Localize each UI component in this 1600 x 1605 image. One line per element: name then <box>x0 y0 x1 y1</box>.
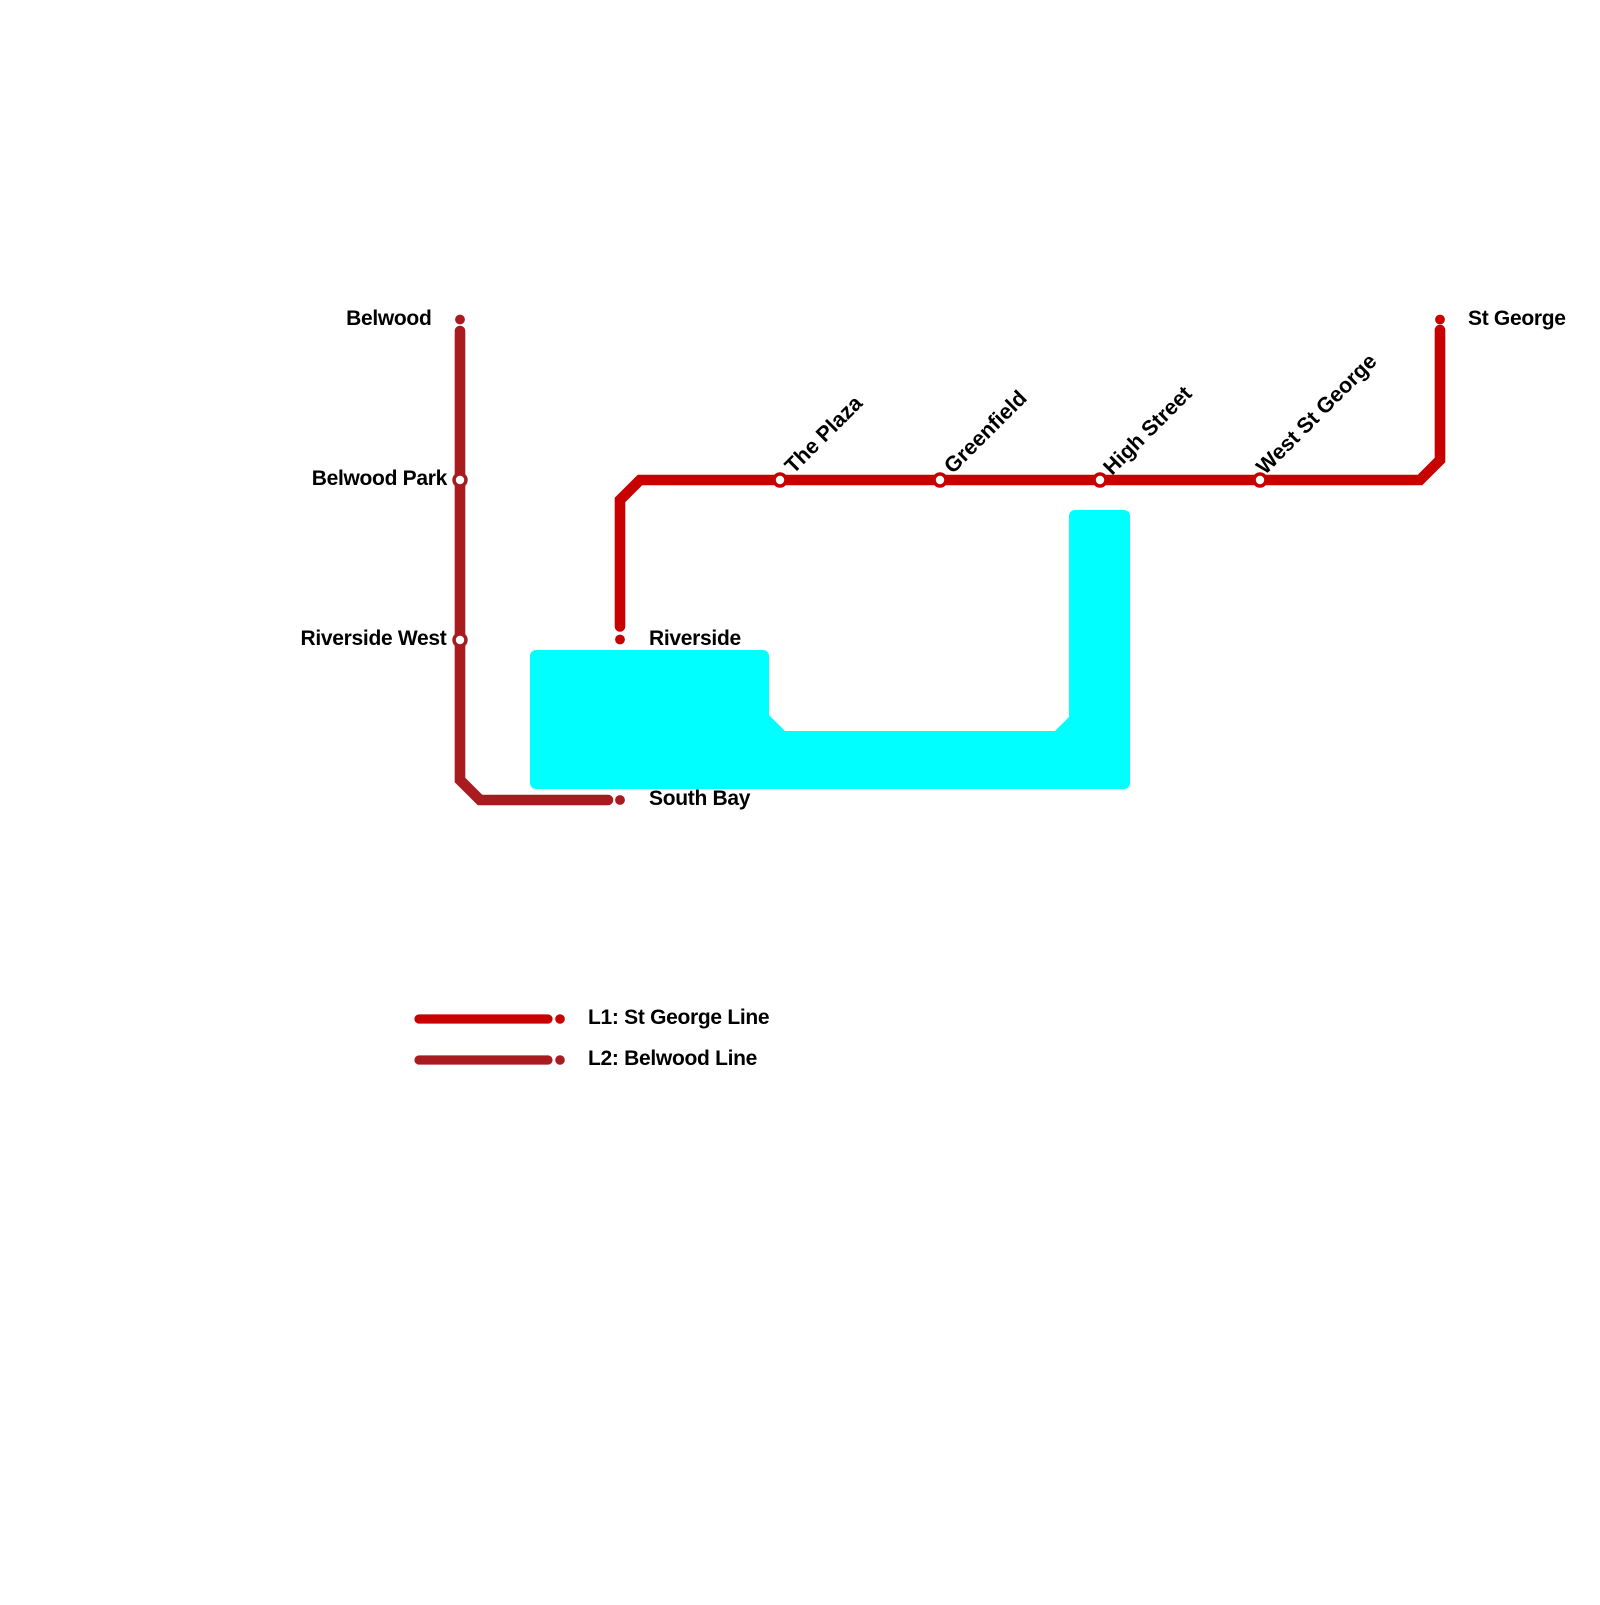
svg-text:St George: St George <box>1468 307 1566 330</box>
svg-text:L1: St George Line: L1: St George Line <box>588 1006 769 1029</box>
svg-text:Riverside: Riverside <box>649 627 741 650</box>
svg-text:L2: Belwood Line: L2: Belwood Line <box>588 1047 757 1070</box>
svg-text:Belwood Park: Belwood Park <box>312 467 448 490</box>
svg-text:Belwood: Belwood <box>346 307 431 330</box>
svg-text:South Bay: South Bay <box>649 787 751 810</box>
svg-text:Riverside West: Riverside West <box>301 627 447 650</box>
